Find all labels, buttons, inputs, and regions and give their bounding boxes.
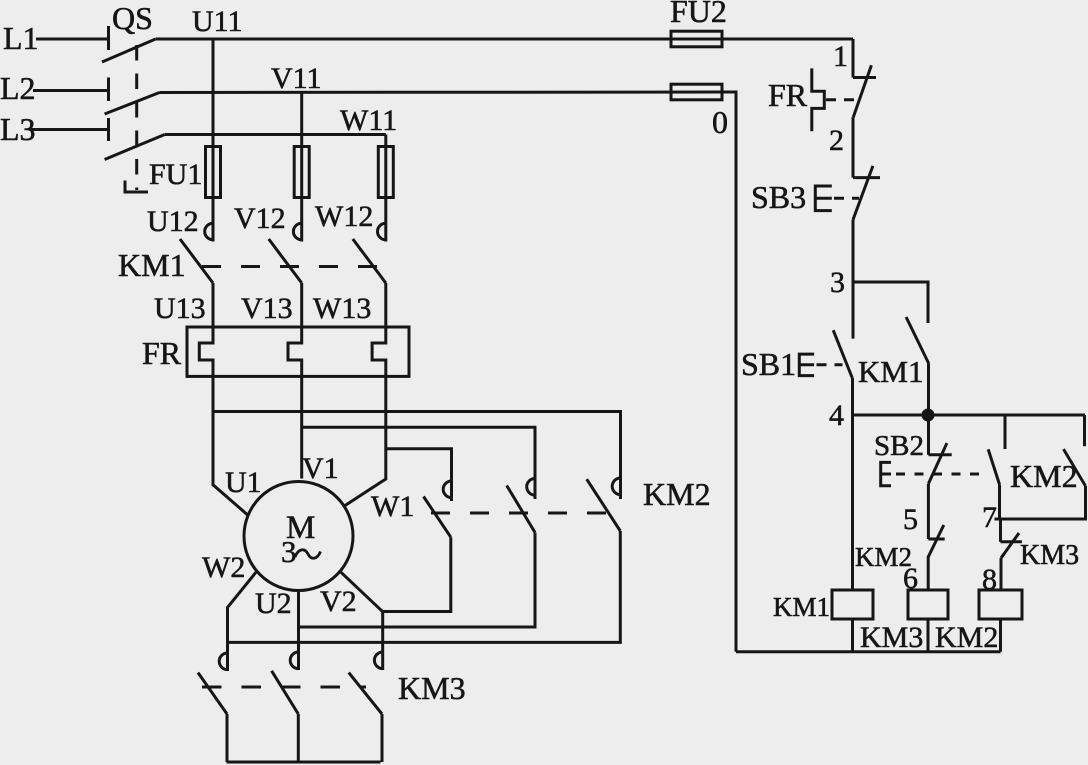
contactor KM3 pole 2 blade <box>272 671 299 714</box>
wire phase A top rail to FU2 <box>156 38 853 41</box>
svg-text:U12: U12 <box>147 205 199 238</box>
contactor KM1 main pole V fixed contact arc <box>293 223 301 240</box>
contactor KM2 aux NO top wire <box>1083 415 1086 446</box>
contactor KM3 pole 2 fixed contact arc <box>290 652 298 669</box>
wire node 1-2 <box>852 117 855 178</box>
svg-text:3: 3 <box>281 534 297 569</box>
contactor KM1 main pole W blade <box>353 239 386 283</box>
wire KM3 pole 1 bottom <box>226 714 229 762</box>
svg-text:KM2: KM2 <box>643 476 711 512</box>
wire W11 column <box>384 135 387 242</box>
contactor KM2 NC interlock tick <box>928 538 944 541</box>
wire U2 motor lead <box>297 592 300 670</box>
wire KM2 pole 1 to V2 <box>383 537 451 611</box>
svg-text:W12: W12 <box>315 200 373 233</box>
svg-text:QS: QS <box>112 0 153 36</box>
svg-text:4: 4 <box>829 399 844 432</box>
wire phase C rail <box>165 133 386 136</box>
contactor KM3 pole 3 blade <box>349 673 382 714</box>
fuse FU2 upper body <box>671 31 722 47</box>
contactor KM2 pole 2 blade <box>507 486 535 533</box>
relay FR heater box <box>187 327 409 376</box>
wire V2 motor lead <box>341 572 383 670</box>
wire KM2 pole 3 to W2 <box>228 531 621 642</box>
svg-text:U1: U1 <box>225 466 262 499</box>
wire node 5 <box>927 484 930 539</box>
button SB1 linkage dashed <box>817 363 843 366</box>
coil KM1 body <box>832 590 873 619</box>
svg-text:KM1: KM1 <box>773 592 830 622</box>
button SB2 linkage dashed <box>896 473 988 476</box>
contactor KM1 aux NO blade <box>906 317 929 364</box>
svg-text:L1: L1 <box>3 20 39 56</box>
contactor KM2 pole 1 fixed contact arc <box>443 481 451 498</box>
button SB2 NO top wire <box>1004 415 1007 449</box>
svg-text:U11: U11 <box>192 5 243 38</box>
svg-text:U13: U13 <box>154 292 206 325</box>
wire node 6 <box>927 556 930 590</box>
wire node 8 <box>1000 558 1003 590</box>
svg-text:8: 8 <box>982 563 997 596</box>
wire KM2 aux bottom link <box>995 486 1086 519</box>
contactor KM1 main pole U fixed contact arc <box>205 223 213 240</box>
wire control rail top <box>852 39 855 78</box>
svg-text:1: 1 <box>833 40 848 73</box>
contactor KM2 main linkage dashed <box>431 512 614 515</box>
svg-text:KM3: KM3 <box>860 621 923 654</box>
wire SB2 NO to node 7 <box>998 485 1001 520</box>
relay FR linkage dashed <box>826 98 856 101</box>
contactor KM2 pole 2 fixed contact arc <box>527 479 535 496</box>
svg-text:0: 0 <box>712 104 728 140</box>
svg-text:SB1: SB1 <box>741 346 796 382</box>
button SB1 NO blade <box>833 330 852 378</box>
switch QS pole 1 blade <box>102 39 156 62</box>
switch QS pole 1 contact bar <box>107 26 110 50</box>
fuse FU1 pole U body <box>206 147 221 198</box>
contactor KM1 main pole U blade <box>180 239 213 283</box>
svg-text:W11: W11 <box>340 104 397 137</box>
wire node4 to KM1 coil <box>851 415 854 590</box>
svg-text:W2: W2 <box>202 551 245 584</box>
svg-text:SB2: SB2 <box>874 430 924 462</box>
svg-text:KM2: KM2 <box>1010 458 1078 494</box>
svg-text:KM3: KM3 <box>1020 540 1079 571</box>
wire node 7 <box>999 519 1002 542</box>
wire L1 input <box>36 38 109 41</box>
svg-text:KM1: KM1 <box>858 354 923 389</box>
wire U11 column <box>212 39 215 242</box>
fuse FU2 lower body <box>671 84 722 100</box>
svg-text:L3: L3 <box>0 111 36 147</box>
wire node4 to SB2 <box>927 415 930 455</box>
svg-text:V12: V12 <box>234 202 286 235</box>
wire W branch to KM2 pole 1 <box>386 449 452 501</box>
svg-text:FR: FR <box>142 335 182 371</box>
label motor tilde <box>295 550 321 558</box>
wire phase B rail to FU2 <box>160 91 723 95</box>
wire KM3 pole 2 bottom <box>297 714 300 762</box>
wire KM2 coil bottom <box>999 619 1002 652</box>
contactor KM1 main linkage dashed <box>202 265 393 268</box>
relay FR NC contact blade <box>853 65 871 117</box>
junction node 4 dot <box>923 410 933 420</box>
contactor KM2 pole 3 fixed contact arc <box>612 478 620 495</box>
svg-text:U2: U2 <box>255 587 292 620</box>
wire KM3 pole 3 bottom <box>381 714 384 762</box>
wire KM2 pole 2 to U2 <box>299 533 536 628</box>
switch QS pole 3 contact bar <box>107 118 110 141</box>
svg-text:W1: W1 <box>371 490 414 523</box>
contactor KM1 main pole V blade <box>269 239 302 283</box>
contactor KM3 pole 3 fixed contact arc <box>374 652 382 669</box>
wire SB1 to node 4 <box>851 378 854 415</box>
svg-text:SB3: SB3 <box>751 179 806 215</box>
fuse FU1 pole W body <box>378 147 393 198</box>
wire node 3 branch <box>853 282 928 323</box>
switch QS linkage dashed <box>135 45 138 190</box>
contactor KM2 pole 1 blade <box>424 497 451 538</box>
button SB2 NC tick <box>929 453 952 456</box>
button SB2 actuator E <box>881 462 891 485</box>
wire V13 column with FR heater element <box>288 283 302 479</box>
svg-text:KM1: KM1 <box>118 247 186 283</box>
wire bottom return rail <box>736 650 1001 653</box>
contactor KM1 main pole W fixed contact arc <box>378 223 386 240</box>
coil KM3 body <box>908 590 948 619</box>
button SB3 actuator E <box>815 186 832 211</box>
svg-text:V2: V2 <box>320 585 357 618</box>
svg-text:6: 6 <box>903 562 918 595</box>
svg-text:FU1: FU1 <box>149 158 202 191</box>
motor M circle <box>244 482 353 591</box>
svg-text:FR: FR <box>768 77 808 113</box>
fuse FU1 pole V body <box>294 147 309 198</box>
svg-text:W13: W13 <box>313 292 371 325</box>
contactor KM2 aux NO blade <box>1064 449 1086 486</box>
coil KM2 body <box>979 590 1022 619</box>
relay FR trip actuator <box>812 68 825 131</box>
contactor KM2 pole 3 blade <box>587 479 621 531</box>
wire W2 motor lead <box>228 572 257 671</box>
wire V11 column <box>300 93 303 242</box>
svg-text:FU2: FU2 <box>670 0 727 29</box>
switch QS pole 2 blade <box>105 93 160 115</box>
button SB3 NC blade <box>853 166 873 220</box>
wire node 4 rail <box>853 414 1086 417</box>
svg-text:L2: L2 <box>0 70 36 106</box>
svg-text:V11: V11 <box>271 62 322 95</box>
contactor KM3 NC interlock blade <box>1001 533 1019 558</box>
wire node 2-3 <box>852 220 855 339</box>
svg-text:V13: V13 <box>241 292 293 325</box>
svg-text:2: 2 <box>829 124 844 157</box>
svg-text:KM2: KM2 <box>935 621 998 654</box>
wire KM3 coil bottom <box>927 619 930 652</box>
wire KM3 star shorting bar <box>227 761 381 764</box>
wire L3 input <box>30 128 109 131</box>
wire U branch to KM2 pole 3 <box>213 412 621 500</box>
svg-text:5: 5 <box>903 503 918 536</box>
contactor KM2 NC interlock blade <box>928 525 944 557</box>
svg-text:V1: V1 <box>302 452 339 485</box>
svg-text:7: 7 <box>982 501 997 534</box>
contactor KM3 NC interlock tick <box>1001 540 1022 543</box>
switch QS pole 3 blade <box>105 135 165 160</box>
switch QS pole 2 contact bar <box>107 78 110 102</box>
relay FR NC contact tick <box>853 76 876 79</box>
contactor KM3 pole 1 blade <box>198 673 227 714</box>
contactor KM3 linkage dashed <box>202 686 366 689</box>
wire W13 column with FR heater element <box>345 283 386 506</box>
wire L2 input <box>33 89 109 92</box>
button SB3 NC tick <box>853 176 880 179</box>
button SB3 linkage dashed <box>834 197 859 200</box>
contactor KM3 pole 1 fixed contact arc <box>219 653 227 670</box>
wire V branch to KM2 pole 2 <box>302 427 535 499</box>
svg-text:KM3: KM3 <box>398 670 466 706</box>
wire U13 column with FR heater element <box>199 283 247 515</box>
svg-text:3: 3 <box>830 266 845 299</box>
wire KM1 coil bottom <box>851 619 854 652</box>
button SB2 NC blade <box>928 443 947 484</box>
switch QS handle bracket <box>125 181 148 193</box>
wire KM1 aux to node 4 <box>927 364 930 415</box>
wire 0 rail <box>722 92 736 652</box>
button SB2 NO blade <box>988 449 999 484</box>
button SB1 actuator E <box>799 354 814 376</box>
